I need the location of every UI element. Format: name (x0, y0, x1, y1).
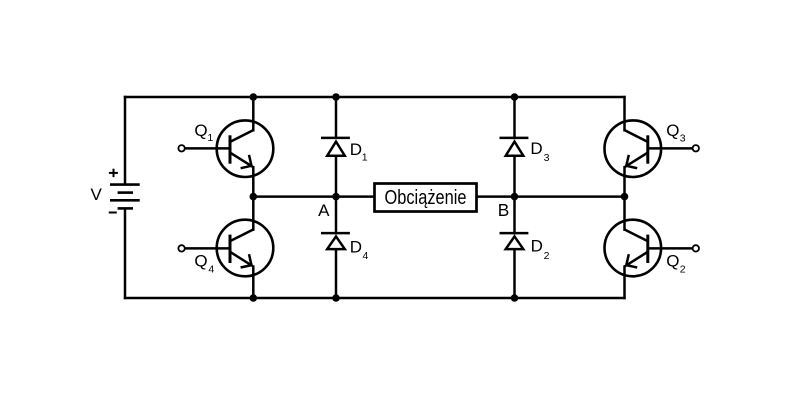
svg-text:3: 3 (680, 132, 686, 144)
transistor Q1 (178, 120, 273, 177)
wire right vertical mid to Q2 collector (623, 196, 626, 231)
svg-text:4: 4 (363, 250, 369, 262)
svg-text:2: 2 (680, 264, 686, 276)
wire D3 branch bottom (513, 157, 516, 197)
wire Q1 collector vertical (252, 97, 255, 132)
junction dot bottom rail Q4 (250, 294, 258, 302)
svg-text:V: V (91, 185, 103, 204)
svg-text:Q: Q (666, 121, 679, 140)
svg-text:D: D (530, 139, 542, 158)
wire mid rail right segment (476, 195, 625, 198)
node B (511, 193, 519, 201)
load box Obciazenie (375, 184, 477, 212)
wire left vertical lower (124, 208, 127, 299)
wire Q4 emitter to bottom rail (252, 265, 255, 298)
junction dot top rail Q1 (250, 93, 258, 101)
svg-text:1: 1 (362, 151, 368, 163)
diode D2 (500, 233, 529, 249)
wire D1 branch top (335, 97, 338, 139)
diode D3 (500, 138, 529, 156)
wire D2 branch bottom (513, 250, 516, 298)
svg-text:D: D (350, 140, 362, 159)
svg-text:3: 3 (544, 152, 550, 164)
junction dot bottom rail D4 (332, 294, 340, 302)
wire D3 branch top (513, 97, 516, 139)
wire right vertical Q2 emitter to bottom rail (623, 265, 626, 299)
svg-text:1: 1 (207, 132, 213, 144)
svg-text:A: A (318, 201, 330, 220)
wire left vertical upper (124, 96, 127, 185)
wire D2 branch top (513, 197, 516, 235)
wire Q1 emitter to mid rail (252, 166, 255, 198)
svg-text:D: D (531, 237, 543, 256)
transistor Q3 (605, 120, 700, 177)
svg-text:Q: Q (666, 251, 679, 270)
svg-text:Q: Q (194, 252, 207, 271)
transistor Q2 (605, 220, 700, 277)
battery V (110, 185, 140, 209)
svg-text:B: B (498, 200, 510, 220)
svg-text:Q: Q (194, 121, 207, 140)
wire D4 branch top (335, 197, 338, 235)
svg-text:D: D (350, 238, 362, 257)
junction dot top rail D3 (511, 93, 519, 101)
wire right vertical top (Q3 collector) (623, 96, 626, 132)
junction dot mid rail right Q3/Q2 (621, 193, 629, 201)
transistor Q4 (178, 220, 273, 277)
wire right vertical Q3 emitter to mid (623, 166, 626, 198)
wire bottom rail (124, 297, 626, 300)
junction dot mid rail Q1/Q4 (250, 193, 258, 201)
wire mid rail left segment (253, 195, 374, 198)
junction dot bottom rail D2 (511, 294, 519, 302)
diode D1 (321, 138, 350, 156)
svg-text:4: 4 (208, 264, 214, 276)
wire top rail (124, 96, 626, 99)
diode D4 (321, 233, 350, 249)
junction dot top rail D1 (332, 93, 340, 101)
svg-text:Obciążenie: Obciążenie (385, 187, 467, 209)
wire D1 branch bottom (335, 157, 338, 197)
battery plus sign (109, 169, 118, 177)
battery minus sign (109, 212, 117, 214)
node A (332, 193, 340, 201)
svg-text:2: 2 (544, 250, 550, 262)
wire Q4 collector vertical (252, 196, 255, 231)
wire D4 branch bottom (335, 250, 338, 298)
